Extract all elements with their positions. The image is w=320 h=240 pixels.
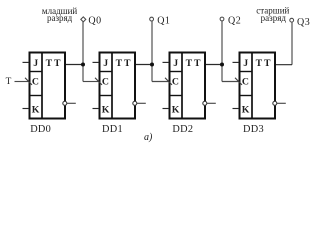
terminal Q3 [290, 18, 294, 22]
svg-text:J: J [33, 58, 38, 69]
flip-flop DD3 [240, 53, 276, 119]
svg-text:разряд: разряд [261, 13, 287, 23]
svg-text:C: C [172, 76, 179, 87]
svg-text:TT: TT [256, 58, 273, 69]
wire Q0 vertical to terminal and to C of DD1 [82, 22, 84, 82]
label DD0 [30, 124, 51, 135]
label DD3 [243, 124, 264, 135]
wire T input to C of DD0 [15, 81, 29, 83]
wire Q output DD3 [275, 64, 293, 66]
inverse output circle DD1 [133, 101, 146, 105]
svg-text:разряд: разряд [47, 13, 73, 23]
wire J stub DD1 [93, 61, 100, 63]
caption а) [144, 132, 153, 143]
svg-text:DD2: DD2 [172, 124, 193, 135]
svg-text:TT: TT [116, 58, 133, 69]
dynamic input slash DD1 [95, 78, 102, 85]
inverse output circle DD2 [203, 101, 216, 105]
label Q2 [228, 15, 241, 26]
wire K stub DD2 [163, 108, 170, 110]
svg-text:Q3: Q3 [297, 17, 310, 28]
svg-text:K: K [32, 104, 40, 115]
inverse output circle DD0 [63, 101, 76, 105]
svg-text:K: K [242, 104, 250, 115]
flip-flop DD0 [30, 53, 66, 119]
terminal Q1 [150, 17, 154, 21]
svg-text:Q0: Q0 [88, 15, 101, 26]
label DD1 [102, 124, 123, 135]
wire K stub DD3 [233, 108, 240, 110]
label Q1 [157, 15, 170, 26]
inverse output circle DD3 [273, 101, 286, 105]
svg-text:C: C [242, 76, 249, 87]
wire J stub DD0 [23, 61, 30, 63]
svg-text:Q2: Q2 [228, 15, 241, 26]
wire J stub DD3 [233, 61, 240, 63]
svg-text:DD3: DD3 [243, 124, 264, 135]
junction node Q1 [150, 63, 154, 67]
label "младший разряд" [42, 6, 78, 23]
svg-text:TT: TT [46, 58, 63, 69]
svg-text:TT: TT [186, 58, 203, 69]
wire Q1 vertical to terminal and to C of DD2 [151, 21, 153, 82]
svg-text:K: K [172, 104, 180, 115]
svg-text:C: C [32, 76, 39, 87]
svg-text:C: C [102, 76, 109, 87]
svg-text:K: K [102, 104, 110, 115]
wire K stub DD0 [23, 108, 30, 110]
label T input [6, 77, 12, 87]
wire K stub DD1 [93, 108, 100, 110]
dynamic input slash DD3 [235, 78, 242, 85]
wire Q output DD2 [205, 64, 223, 66]
label "старший разряд" [256, 5, 289, 22]
dynamic input slash DD2 [165, 78, 172, 85]
svg-text:DD1: DD1 [102, 124, 123, 135]
svg-text:DD0: DD0 [30, 124, 51, 135]
svg-text:J: J [103, 58, 108, 69]
wire Q output DD0 [65, 64, 84, 66]
flip-flop DD2 [170, 53, 206, 119]
dynamic input slash DD0 [25, 78, 32, 85]
junction node Q2 [220, 63, 224, 67]
label Q3 [297, 17, 310, 28]
junction node Q0 [81, 63, 85, 67]
wire C input DD3 [222, 81, 239, 83]
wire Q2 vertical to terminal and to C of DD3 [221, 21, 223, 82]
svg-text:T: T [6, 77, 12, 87]
wire Q3 vertical to terminal [291, 22, 293, 65]
svg-text:J: J [243, 58, 248, 69]
wire Q output DD1 [135, 64, 153, 66]
wire C input DD1 [83, 81, 99, 83]
label Q0 [88, 15, 101, 26]
svg-text:J: J [173, 58, 178, 69]
terminal Q2 [220, 17, 224, 21]
flip-flop DD1 [100, 53, 136, 119]
svg-text:а): а) [144, 132, 153, 143]
wire J stub DD2 [163, 61, 170, 63]
wire C input DD2 [152, 81, 169, 83]
label DD2 [172, 124, 193, 135]
svg-text:Q1: Q1 [157, 15, 170, 26]
terminal Q0 [81, 17, 86, 22]
